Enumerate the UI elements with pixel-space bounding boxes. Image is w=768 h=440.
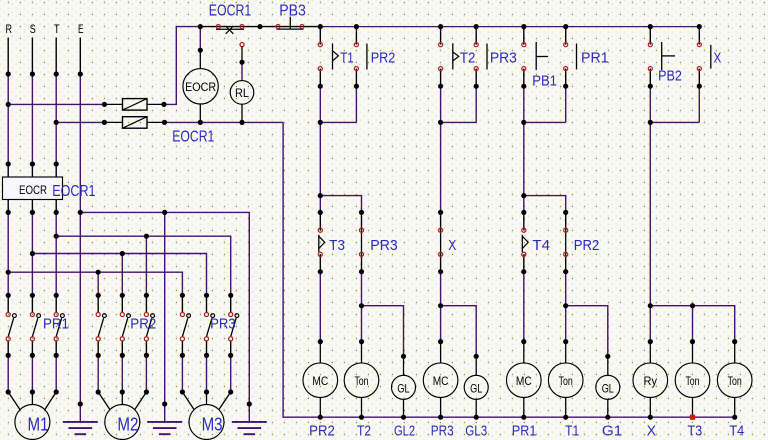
junction at (8.2,355.4) [6, 353, 11, 358]
coil MC1 [303, 363, 338, 398]
contact Xb terminals [439, 228, 443, 232]
junction at (650.3,26.6) [648, 24, 653, 29]
wire T vertical [55, 74, 57, 164]
wire A2 to coil [361, 272, 363, 342]
pushbutton PB2 symbol [661, 42, 663, 70]
wire GL3 feed [441, 306, 477, 357]
wire T3 coil drop [692, 306, 694, 342]
junction at (440.6,305.7) [438, 303, 443, 308]
wire motor lead [7, 355, 9, 392]
junction at (80.3,74) [78, 71, 83, 76]
contact PR1 pole 2 terminals [30, 312, 34, 316]
relay EOCR1 box [3, 177, 63, 200]
coil Ton1 pin bottom [361, 398, 363, 418]
contact Xb pins [440, 212, 442, 230]
contact T3 symbol [318, 235, 320, 252]
contact PR1 pole 1 [7, 295, 9, 312]
junction at (32.4,295.3) [30, 293, 35, 298]
wire T to fuse F2 [56, 121, 104, 123]
contact PR2 pole 3 [145, 295, 147, 312]
junction at (440.6,417.2) [438, 415, 443, 420]
svg-text:T3: T3 [687, 423, 702, 439]
svg-text:EOCR: EOCR [185, 80, 216, 94]
junction at (200.3,26.6) [198, 24, 203, 29]
wire rung B branch 1 drop [440, 86, 442, 122]
junction at (361.5,305.7) [359, 303, 364, 308]
junction at (650.3,417.2) [648, 415, 653, 420]
wire rung A branch 2 drop [355, 86, 357, 122]
wire R phase lead-in [7, 38, 9, 75]
wire G1 feed [566, 306, 608, 357]
contact PR2 pole 1 [97, 295, 99, 312]
junction at (320.3,417.2) [318, 415, 323, 420]
wire motor lead [145, 355, 147, 392]
ground 1 [79, 404, 81, 422]
junction at (361.5,417.2) [359, 415, 364, 420]
pushbutton PB1 terminals [522, 43, 526, 47]
junction at (56.2,392) [54, 389, 59, 394]
junction at (650.3,305.7) [648, 303, 653, 308]
junction at (523.8,122.4) [521, 120, 526, 125]
junction at (122.3,392) [120, 389, 125, 394]
junction at (56.2,355.4) [54, 353, 59, 358]
wire B1 to coil [440, 272, 442, 342]
wire C1 to coil [523, 272, 525, 342]
coil Ton1 [344, 363, 379, 398]
junction at (476.2,26.6) [474, 24, 479, 29]
wire rung D join [650, 121, 699, 123]
junction at (200.3,50.2) [198, 48, 203, 53]
contact PR3 pole 2 terminals [204, 312, 208, 316]
junction at (607.8,417.2) [605, 415, 610, 420]
junction at (146.4,355.4) [144, 353, 149, 358]
junction at (80.3,212.4) [78, 210, 83, 215]
pushbutton PB3 [277, 28, 304, 30]
wire rung A trunk [319, 122, 321, 212]
junction at (32.4,355.4) [30, 353, 35, 358]
svg-text:PR3: PR3 [210, 317, 236, 333]
wire rung D branch 1 drop [649, 86, 651, 122]
svg-text:PR1: PR1 [581, 51, 609, 67]
junction at (80.3,404) [78, 401, 83, 406]
junction at (320.3,212.4) [318, 210, 323, 215]
lamp G1 [596, 375, 620, 399]
svg-text:T3: T3 [329, 238, 345, 254]
wire motor lead [121, 355, 123, 392]
pushbutton PB2 terminals [648, 43, 652, 47]
wire S below EOCR [31, 212, 33, 253]
svg-text:X: X [647, 423, 657, 439]
svg-text:MC: MC [516, 374, 532, 388]
pushbutton PB2 pins [649, 27, 651, 45]
wire GL2 feed [362, 306, 404, 357]
motor M2 [105, 405, 140, 440]
junction at (122.3,253.5) [120, 251, 125, 256]
junction at (476.2,417.2) [474, 415, 479, 420]
junction at (56.2,295.3) [54, 293, 59, 298]
svg-text:EOCR1: EOCR1 [52, 183, 95, 200]
svg-text:EOCR1: EOCR1 [209, 3, 252, 20]
junction at (8.2,164) [6, 161, 11, 166]
junction at (361.5,271.7) [359, 269, 364, 274]
control rail black segment [200, 26, 320, 28]
contact Xa pins [698, 27, 700, 45]
junction at (32.4,164) [30, 161, 35, 166]
wire E vertical [79, 74, 81, 404]
svg-text:S: S [30, 24, 36, 36]
svg-text:PR2: PR2 [309, 423, 335, 439]
junction at (440.6,271.7) [438, 269, 443, 274]
coil MC2 pin bottom [440, 398, 442, 418]
contact PR2 pole 1 terminals [96, 312, 100, 316]
control rail wire [320, 26, 699, 28]
junction at (104.4,122.4) [102, 120, 107, 125]
junction at (523.8,86.2) [521, 84, 526, 89]
wire motor lead [181, 355, 183, 392]
contact PR3 pole 3 [230, 295, 232, 312]
contact PR2 pole 2 terminals [120, 312, 124, 316]
junction at (650.3,341.6) [648, 339, 653, 344]
junction at (565.7,212.4) [563, 210, 568, 215]
relay EOCR1 box pins top [7, 164, 9, 177]
contact PR3a terminals [474, 43, 478, 47]
svg-text:PB3: PB3 [279, 3, 306, 20]
coil Ton2 pin bottom [565, 398, 567, 418]
fuse F2 [104, 121, 122, 123]
contact PR1a symbol [576, 44, 578, 70]
junction at (98.2,355.4) [96, 353, 101, 358]
junction at (146.4,392) [144, 389, 149, 394]
junction dot red T3 [690, 415, 695, 420]
contact T1 symbol [332, 43, 334, 69]
junction at (523.8,417.2) [521, 415, 526, 420]
junction at (699.3,86.2) [697, 84, 702, 89]
junction at (692.5,341.6) [690, 339, 695, 344]
junction at (8.2,392) [6, 389, 11, 394]
lamp GL2 pin bottom [403, 399, 405, 417]
wire motor lead [206, 355, 208, 392]
wire E phase lead-in [79, 38, 81, 75]
lamp GL2 pin top [403, 356, 405, 375]
svg-text:Ton: Ton [354, 374, 368, 388]
coil MC2 [423, 363, 458, 398]
contact PR1a pins [565, 27, 567, 45]
contact T4 terminals [522, 228, 526, 232]
wire M2 phase drops [97, 272, 99, 295]
contact T3 terminals [318, 228, 322, 232]
wire fuse F2 to neutral line [165, 121, 284, 123]
contact Xb symbol [440, 230, 442, 254]
junction at (164.7,212.4) [162, 210, 167, 215]
wire C2 to coil [565, 272, 567, 342]
junction at (523.8,341.6) [521, 339, 526, 344]
junction at (523.8,271.7) [521, 269, 526, 274]
junction at (122.3,295.3) [120, 293, 125, 298]
wire rung B trunk [440, 122, 442, 212]
junction at (650.3,86.2) [648, 84, 653, 89]
junction at (146.4,236.2) [144, 234, 149, 239]
wire rung A branch 1 drop [319, 86, 321, 122]
svg-text:M1: M1 [28, 415, 49, 435]
junction at (440.6,86.2) [438, 84, 443, 89]
junction at (200.3,122.4) [198, 120, 203, 125]
contact PR2a terminals [354, 43, 358, 47]
lamp G1 pin top [607, 356, 609, 375]
junction at (182.4,295.3) [180, 293, 185, 298]
wire M1 phase drops [7, 272, 9, 295]
contact PR1 pole 3 [55, 295, 57, 312]
junction at (476.2,356.3) [474, 354, 479, 359]
coil Ton2 pin top [565, 342, 567, 363]
junction at (320.3,86.2) [318, 84, 323, 89]
lamp GL3 pin bottom [475, 399, 477, 417]
junction at (523.8,195.6) [521, 193, 526, 198]
junction at (98.2,392) [96, 389, 101, 394]
junction at (122.3,355.4) [120, 353, 125, 358]
svg-text:PR2: PR2 [130, 317, 156, 333]
svg-text:X: X [448, 238, 456, 254]
svg-text:Ton: Ton [728, 374, 742, 388]
contact PR1a terminals [564, 43, 568, 47]
junction at (734.7,417.2) [732, 415, 737, 420]
contact Xa terminals [697, 43, 701, 47]
junction at (8.2,74) [6, 71, 11, 76]
wire fuse F1 to control rail [164, 27, 200, 105]
junction at (650.3,122.4) [648, 120, 653, 125]
junction at (249.3,404) [247, 401, 252, 406]
coil MC2 pin top [440, 342, 442, 363]
junction at (56.2,74) [54, 71, 59, 76]
svg-text:E: E [78, 24, 84, 36]
svg-text:Ry: Ry [644, 374, 658, 388]
motor M1 [15, 405, 50, 440]
wire rail to EOCR coil [199, 27, 201, 51]
wire T phase lead-in [55, 38, 57, 75]
lamp RL terminal [240, 43, 244, 47]
junction at (320.3,341.6) [318, 339, 323, 344]
wire A1 to coil [319, 272, 321, 342]
junction at (8.2,272.2) [6, 270, 11, 275]
contact PR3a pins [475, 27, 477, 45]
junction at (56.2,212.4) [54, 210, 59, 215]
ground 3 [248, 404, 250, 422]
wire S phase lead-in [31, 38, 33, 75]
coil MC3 pin top [523, 342, 525, 363]
wire motor lead [230, 355, 232, 392]
junction at (32.4,212.4) [30, 210, 35, 215]
svg-text:T4: T4 [729, 423, 744, 439]
pushbutton PB1 symbol [535, 42, 537, 70]
junction at (565.7,417.2) [563, 415, 568, 420]
junction at (98.2,295.3) [96, 293, 101, 298]
contact PR3 pole 3 terminals [229, 312, 233, 316]
junction at (8.2,104.4) [6, 102, 11, 107]
svg-text:PB2: PB2 [658, 69, 682, 85]
junction at (146.4,295.3) [144, 293, 149, 298]
contact PR1 pole 1 terminals [6, 312, 10, 316]
junction at (98.2,272.2) [96, 270, 101, 275]
motor M3 feed lines [182, 392, 194, 410]
junction at (523.8,212.4) [521, 210, 526, 215]
junction at (692.5,305.7) [690, 303, 695, 308]
contact T1 terminals [318, 43, 322, 47]
contact PR1 pole 2 [31, 295, 33, 312]
contact PR2 pole 2 [121, 295, 123, 312]
svg-text:X: X [713, 51, 721, 67]
svg-text:PR3: PR3 [431, 423, 454, 439]
lamp RL [230, 81, 254, 105]
contact PR1 pole 3 terminals [54, 312, 58, 316]
contact Xa symbol [710, 45, 712, 69]
wire R distribution [8, 272, 182, 295]
wire S distribution [32, 254, 206, 296]
svg-text:R: R [5, 24, 12, 36]
junction at (320.3,122.4) [318, 120, 323, 125]
junction at (32.4,253.5) [30, 251, 35, 256]
coil MC3 pin bottom [523, 398, 525, 418]
contact PR2a pins [355, 27, 357, 45]
coil Ton3 [675, 363, 710, 398]
svg-text:GL2: GL2 [394, 423, 415, 439]
junction at (356.4,26.6) [354, 24, 359, 29]
contact T2 symbol [452, 43, 454, 69]
contact PR2b pins [565, 212, 567, 230]
wire rung B join [441, 121, 477, 123]
contact T1 pins [319, 27, 321, 45]
coil EOCR pin bottom [199, 104, 201, 122]
lamp GL3 pin top [475, 356, 477, 375]
svg-text:EOCR1: EOCR1 [172, 128, 214, 145]
contact PR3 pole 2 [206, 295, 208, 312]
coil MC1 pin top [319, 342, 321, 363]
junction at (320.3,195.6) [318, 193, 323, 198]
junction at (699.3,26.6) [697, 24, 702, 29]
wire T below EOCR [55, 212, 57, 236]
lamp RL pin bottom [241, 104, 243, 122]
svg-text:M3: M3 [202, 415, 223, 435]
svg-text:T: T [54, 24, 60, 36]
svg-text:GL: GL [602, 382, 614, 396]
contact PR2b symbol [565, 230, 567, 254]
wire rung D trunk [649, 122, 651, 305]
coil Ton4 pin top [734, 342, 736, 363]
junction at (104.4,104.4) [102, 102, 107, 107]
junction at (320.3,26.6) [318, 24, 323, 29]
svg-text:EOCR: EOCR [19, 183, 47, 197]
junction at (242,122.4) [239, 120, 244, 125]
contact T4 symbol [521, 235, 523, 252]
lamp G1 pin bottom [607, 399, 609, 417]
contact T2 terminals [439, 43, 443, 47]
contact T4 pins [523, 212, 525, 230]
junction at (8.2,295.3) [6, 293, 11, 298]
junction at (565.7,271.7) [563, 269, 568, 274]
contact T3 pins [319, 212, 321, 230]
svg-text:PR1: PR1 [43, 317, 69, 333]
wire rung A join [320, 121, 356, 123]
contact PR3 pole 1 terminals [180, 312, 184, 316]
junction at (242,62.2) [239, 60, 244, 65]
junction at (182.4,355.4) [180, 353, 185, 358]
junction at (182.4,392) [180, 389, 185, 394]
wire ground 2 drop [164, 212, 166, 404]
junction at (32.4,392) [30, 389, 35, 394]
svg-text:MC: MC [433, 374, 449, 388]
svg-text:GL3: GL3 [465, 423, 487, 439]
contact PR3 pole 1 [181, 295, 183, 312]
pushbutton PB1 pins [523, 27, 525, 45]
wire R below EOCR [7, 212, 9, 272]
wire rung C trunk [523, 122, 525, 212]
junction at (476.2,86.2) [474, 84, 479, 89]
wire motor lead [55, 355, 57, 392]
svg-text:T1: T1 [340, 51, 354, 67]
wire rung C join [524, 121, 566, 123]
coil Ry pin top [649, 342, 651, 363]
contact PR2 pole 3 terminals [144, 312, 148, 316]
coil EOCR [183, 69, 218, 104]
junction at (32.4,74) [30, 71, 35, 76]
coil EOCR pin top [199, 50, 201, 68]
junction at (565.7,341.6) [563, 339, 568, 344]
svg-text:PR1: PR1 [512, 423, 537, 439]
junction at (260,26.6) [257, 24, 262, 29]
junction at (565.7,305.7) [563, 303, 568, 308]
junction at (403.5,417.2) [401, 415, 406, 420]
junction at (320.3,271.7) [318, 269, 323, 274]
coil Ry [633, 363, 668, 398]
wire rung C branch 2 drop [565, 86, 567, 122]
junction at (8.2,212.4) [6, 210, 11, 215]
contact PR3a symbol [486, 44, 488, 70]
junction at (230.7,295.3) [228, 293, 233, 298]
wire T3 T4 coil feed [650, 306, 734, 342]
coil Ton1 pin top [361, 342, 363, 363]
wire R to fuse F1 [8, 103, 104, 105]
svg-text:Ton: Ton [685, 374, 699, 388]
relay EOCR1 box pins bottom [7, 200, 9, 213]
junction at (440.6,212.4) [438, 210, 443, 215]
svg-text:Ton: Ton [559, 374, 573, 388]
contact PR3b symbol [361, 230, 363, 254]
junction at (356.4,86.2) [354, 84, 359, 89]
junction at (440.6,122.4) [438, 120, 443, 125]
svg-text:PR3: PR3 [490, 51, 517, 67]
junction at (361.5,341.6) [359, 339, 364, 344]
junction at (206.5,355.4) [204, 353, 209, 358]
motor M1 feed lines [8, 392, 20, 410]
junction at (230.7,355.4) [228, 353, 233, 358]
wire rung B branch 2 drop [475, 86, 477, 122]
contact PR3b pins [361, 212, 363, 230]
junction at (164.7,404) [162, 401, 167, 406]
svg-text:PR2: PR2 [574, 238, 600, 254]
svg-text:RL: RL [235, 86, 249, 100]
coil Ton3 pin bottom [692, 398, 694, 418]
junction at (164.5,122.4) [162, 120, 167, 125]
junction at (56.2,122.4) [54, 120, 59, 125]
wire neutral return to bottom rail [283, 122, 735, 417]
svg-text:PB1: PB1 [532, 74, 557, 90]
junction at (361.5,212.4) [359, 210, 364, 215]
coil MC1 pin bottom [319, 398, 321, 418]
wire rung A mid branch [320, 196, 361, 213]
wire RL [241, 62, 243, 80]
junction at (440.6,26.6) [438, 24, 443, 29]
coil Ry pin bottom [649, 398, 651, 418]
motor M2 feed lines [98, 392, 110, 410]
coil Ton3 pin top [692, 342, 694, 363]
